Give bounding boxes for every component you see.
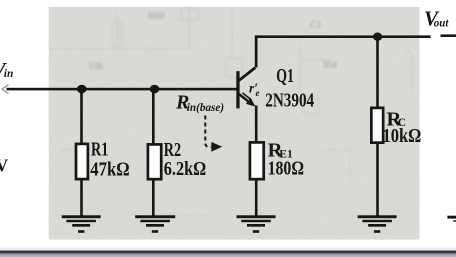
svg-text:6.2kΩ: 6.2kΩ xyxy=(164,158,206,180)
svg-text:47kΩ: 47kΩ xyxy=(90,158,129,180)
svg-text:Q1: Q1 xyxy=(276,65,294,87)
wire: RC bottom lead xyxy=(376,143,379,217)
wire: RC top lead xyxy=(376,37,379,109)
ground: RE1 xyxy=(237,215,276,233)
svg-text:in: in xyxy=(4,68,14,80)
annotation arrow for Rin(base) xyxy=(205,116,222,152)
transistor Q1 xyxy=(236,68,255,109)
label R2 6.2kΩ xyxy=(164,139,206,180)
svg-text:304: 304 xyxy=(322,60,337,71)
label Q1 2N3904 xyxy=(265,65,314,112)
wire: R1 top lead xyxy=(80,89,83,144)
svg-text:10kΩ: 10kΩ xyxy=(383,125,422,147)
svg-text:e: e xyxy=(256,88,260,98)
label Vin xyxy=(0,58,13,82)
wire: R2 top lead xyxy=(152,89,155,145)
ground: R2 xyxy=(135,215,175,233)
label RE1 180Ω xyxy=(268,139,304,179)
wire: R1 bottom lead xyxy=(80,179,83,216)
node: junction at R2 xyxy=(150,85,160,94)
ground: partial, right edge xyxy=(447,216,456,222)
ground: R1 xyxy=(62,215,101,233)
svg-text:180Ω: 180Ω xyxy=(268,158,304,180)
svg-text:out: out xyxy=(434,17,449,29)
svg-text:R1: R1 xyxy=(91,139,108,161)
label re' xyxy=(249,81,260,99)
wire: R2 bottom lead xyxy=(152,179,155,216)
svg-text:2N3904: 2N3904 xyxy=(265,90,314,112)
svg-text:in(base): in(base) xyxy=(187,102,224,114)
resistor R1 xyxy=(76,144,88,179)
label RC 10kΩ xyxy=(383,108,422,147)
svg-text:V: V xyxy=(0,156,9,176)
svg-text:10k: 10k xyxy=(88,61,103,72)
svg-text:C1: C1 xyxy=(310,20,322,31)
wire: emitter to RE1 xyxy=(255,106,258,143)
ground: RC xyxy=(358,215,397,233)
wire: top rail to Vout xyxy=(255,34,456,38)
label Vout xyxy=(424,6,449,30)
label V (cropped at left edge) xyxy=(0,156,9,176)
resistor RC xyxy=(371,108,383,143)
wire: Vin input line xyxy=(2,85,237,94)
wire: RE1 bottom lead xyxy=(255,179,258,217)
svg-text:680: 680 xyxy=(148,10,165,22)
label R1 47kΩ xyxy=(90,139,129,181)
resistor RE1 xyxy=(250,142,264,179)
wire: collector to top rail xyxy=(255,36,258,68)
node: collector / RC junction xyxy=(373,33,382,41)
label Rin(base) xyxy=(175,92,224,114)
resistor R2 xyxy=(148,144,161,179)
node: junction at R1 xyxy=(77,85,87,94)
